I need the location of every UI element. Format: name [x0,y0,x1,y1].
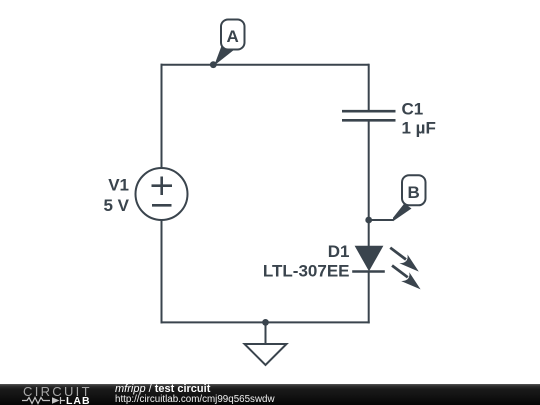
node A flag [214,20,244,66]
svg-text:5 V: 5 V [103,196,129,215]
svg-text:A: A [227,27,239,46]
footer bar [0,384,540,405]
junction dot node A [210,61,217,68]
wire right vertical (bottom) [368,272,370,324]
wire left vertical (top) [161,64,163,168]
ground [245,344,287,365]
svg-text:D1: D1 [328,242,350,261]
svg-text:C1: C1 [402,100,424,119]
wire ground stub [265,322,267,344]
wire right vertical (middle) [368,120,370,246]
junction dot ground [262,319,269,326]
capacitor C1 [342,111,396,120]
label C1 value [402,100,436,138]
wire node B stub [369,219,394,221]
svg-text:V1: V1 [108,175,129,194]
LED arrow 1 [389,247,418,272]
LED arrow 2 [391,264,420,289]
node B flag [393,175,426,221]
svg-text:LTL-307EE: LTL-307EE [263,261,350,280]
LED D1 [352,246,420,290]
voltage source V1 [136,168,188,220]
wire left vertical (bottom) [161,220,163,323]
wire bottom horizontal [161,321,370,323]
junction dot node B [365,217,372,224]
svg-text:1 µF: 1 µF [402,119,436,138]
label D1 value [263,242,350,280]
svg-text:B: B [408,183,420,202]
wire top horizontal [161,64,369,66]
wire right vertical (top) [368,64,370,111]
label V1 value [103,175,129,215]
